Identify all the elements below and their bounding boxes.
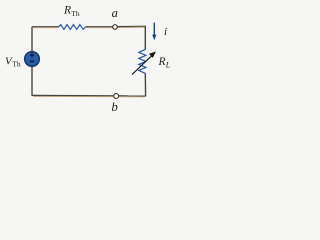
wire right upper bbox=[144, 26, 146, 49]
svg-text:b: b bbox=[111, 99, 118, 114]
wire right lower bbox=[144, 73, 146, 96]
current arrow i bbox=[152, 23, 156, 41]
svg-text:L: L bbox=[165, 61, 171, 70]
wire left upper bbox=[31, 27, 33, 52]
wire top left segment bbox=[32, 27, 59, 28]
node a bbox=[113, 25, 118, 30]
svg-text:i: i bbox=[164, 26, 167, 38]
wire bottom bbox=[32, 95, 146, 97]
node b bbox=[114, 94, 119, 99]
svg-text:Th: Th bbox=[12, 60, 21, 69]
svg-text:a: a bbox=[112, 6, 118, 20]
voltage source V_Th bbox=[25, 52, 40, 67]
resistor R_L (variable) bbox=[139, 49, 146, 73]
svg-text:R: R bbox=[63, 5, 71, 17]
wire top right segment bbox=[86, 26, 146, 28]
wire left lower bbox=[31, 67, 33, 96]
arrow through R_L bbox=[132, 52, 156, 75]
resistor R_Th bbox=[59, 25, 86, 30]
svg-text:R: R bbox=[158, 56, 166, 68]
svg-text:Th: Th bbox=[71, 9, 80, 18]
